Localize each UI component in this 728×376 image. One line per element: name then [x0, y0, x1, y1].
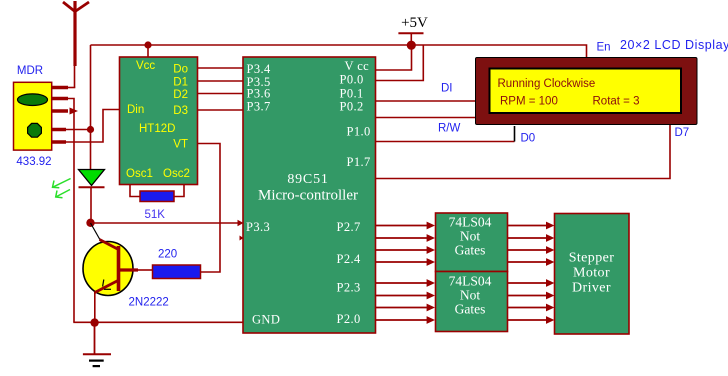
- ground: [83, 322, 111, 366]
- wire D1 to P3.5: [198, 80, 244, 82]
- svg-text:P0.2: P0.2: [340, 100, 364, 114]
- svg-text:Not: Not: [460, 229, 480, 244]
- svg-text:GND: GND: [252, 313, 280, 327]
- antenna: [63, 1, 89, 88]
- svg-text:Not: Not: [460, 288, 480, 303]
- emitter wire: [94, 292, 96, 322]
- inverter U4 74LS04 lower: [436, 272, 508, 332]
- wires P2.3-P2.0 to NOT gates 2: [376, 279, 436, 324]
- MDR module box: [14, 82, 52, 150]
- wire P0.0 to +5V rail: [376, 45, 424, 81]
- svg-text:P3.6: P3.6: [247, 87, 271, 101]
- wire D3 to P3.7: [198, 109, 244, 111]
- svg-text:74LS04: 74LS04: [449, 274, 492, 289]
- LED branch vertical wire: [90, 45, 93, 223]
- MDR pin 3 stub with arrow: [52, 108, 79, 115]
- svg-text:Stepper: Stepper: [569, 251, 615, 266]
- svg-text:P2.7: P2.7: [337, 220, 361, 234]
- svg-text:MDR: MDR: [17, 65, 43, 77]
- svg-text:P2.3: P2.3: [337, 281, 361, 295]
- svg-text:P3.7: P3.7: [247, 100, 271, 114]
- wire VT to 220 resistor: [198, 144, 221, 273]
- ground rail wire: [73, 321, 243, 323]
- svg-text:D7: D7: [675, 127, 690, 139]
- wire D2 to P3.6: [198, 93, 244, 95]
- svg-text:Osc2: Osc2: [163, 168, 190, 180]
- svg-text:V cc: V cc: [345, 59, 370, 73]
- node LED bottom / collector: [86, 219, 94, 227]
- transistor Q1 2N2222: [83, 223, 153, 296]
- svg-text:DI: DI: [441, 83, 453, 95]
- svg-text:433.92: 433.92: [16, 156, 51, 168]
- svg-text:RPM = 100: RPM = 100: [500, 96, 558, 108]
- svg-text:D0: D0: [521, 133, 536, 145]
- svg-text:HT12D: HT12D: [139, 123, 175, 135]
- node emitter/ground: [90, 318, 98, 326]
- Osc2 stub wire: [173, 185, 184, 197]
- +5V rail wire: [91, 45, 587, 58]
- HT12D decoder U1: [120, 57, 198, 185]
- LCD module: [476, 58, 698, 125]
- Osc1 stub wire: [130, 185, 141, 197]
- svg-text:Rotat = 3: Rotat = 3: [593, 96, 640, 108]
- svg-text:Osc1: Osc1: [126, 168, 153, 180]
- svg-text:D3: D3: [173, 105, 188, 117]
- svg-text:P3.4: P3.4: [247, 62, 272, 76]
- wire Vcc to +5V: [376, 45, 412, 70]
- MDR pin 4 wire (to LED node): [52, 128, 91, 132]
- svg-text:51K: 51K: [145, 209, 166, 221]
- wire P1.7 D7 to LCD: [376, 125, 671, 179]
- svg-text:P0.1: P0.1: [340, 86, 364, 100]
- svg-text:Motor: Motor: [573, 266, 610, 281]
- wires NOT gates 2 to stepper driver: [508, 279, 555, 324]
- resistor R1 51K: [140, 191, 174, 202]
- 89C51 labels: [246, 59, 371, 327]
- wire collector node to P3.3: [91, 220, 244, 226]
- svg-text:2N2222: 2N2222: [129, 297, 169, 309]
- node at Vcc tap of HT12D: [144, 41, 151, 48]
- svg-text:D1: D1: [173, 77, 188, 89]
- wire P0.1 DI to LCD: [376, 100, 476, 102]
- HT12D Vcc stub wire: [147, 45, 149, 58]
- svg-text:En: En: [597, 42, 611, 54]
- wire P1.0 D0 to LCD: [376, 126, 515, 142]
- node LED top: [87, 126, 94, 133]
- wires NOT gates 1 to stepper driver: [508, 222, 555, 266]
- HT12D labels: [126, 60, 190, 180]
- svg-text:Gates: Gates: [455, 243, 486, 258]
- svg-text:Micro-controller: Micro-controller: [258, 188, 358, 204]
- svg-text:Din: Din: [127, 104, 144, 116]
- svg-text:P1.7: P1.7: [347, 155, 371, 169]
- svg-text:Driver: Driver: [572, 281, 611, 296]
- svg-text:P2.4: P2.4: [337, 252, 362, 266]
- svg-text:R/W: R/W: [438, 123, 461, 135]
- inverter U3 74LS04 upper: [436, 213, 508, 272]
- MDR pin 5 wire (to HT12D Din): [52, 110, 120, 143]
- svg-text:D2: D2: [173, 89, 188, 101]
- +5V supply: [398, 15, 428, 45]
- svg-text:P0.0: P0.0: [340, 73, 364, 87]
- LED light arrows: [53, 179, 71, 198]
- LED D1: [79, 170, 105, 188]
- svg-text:220: 220: [158, 249, 177, 261]
- svg-text:Gates: Gates: [455, 302, 486, 317]
- svg-text:Vcc: Vcc: [136, 60, 155, 72]
- svg-text:74LS04: 74LS04: [449, 215, 492, 230]
- stray nub on 89C51 left edge: [240, 236, 244, 241]
- wire Do to P3.4: [198, 67, 244, 69]
- svg-text:Do: Do: [173, 64, 188, 76]
- stepper motor driver U5: [555, 214, 630, 335]
- MDR pin 2 wire (to ground rail): [52, 99, 75, 323]
- resistor R2 220: [153, 265, 201, 279]
- svg-text:P2.0: P2.0: [337, 312, 361, 326]
- svg-text:P1.0: P1.0: [347, 125, 371, 139]
- svg-text:+5V: +5V: [401, 15, 428, 31]
- svg-text:P3.3: P3.3: [246, 220, 270, 234]
- svg-text:VT: VT: [173, 139, 188, 151]
- wire P0.2 R/W to LCD: [376, 117, 476, 119]
- svg-text:Running Clockwise: Running Clockwise: [498, 78, 596, 90]
- svg-text:20×2 LCD Display: 20×2 LCD Display: [620, 38, 728, 52]
- MDR pin 1 wire (to antenna): [52, 86, 76, 90]
- svg-text:89C51: 89C51: [287, 172, 328, 187]
- wires P2.7-P2.4 to NOT gates 1: [376, 222, 436, 266]
- node +5V tap: [407, 41, 416, 50]
- micro-controller U2 89C51: [243, 57, 376, 333]
